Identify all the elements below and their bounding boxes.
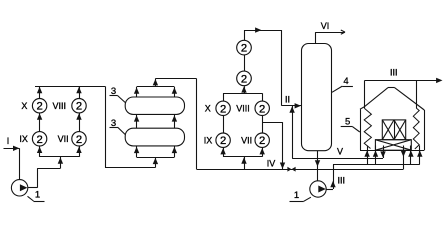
svg-text:II: II <box>285 95 290 105</box>
svg-text:X: X <box>205 104 211 114</box>
svg-text:1: 1 <box>294 190 299 201</box>
svg-text:III: III <box>338 175 346 185</box>
svg-text:2: 2 <box>76 101 82 113</box>
svg-text:2: 2 <box>241 43 247 55</box>
svg-text:2: 2 <box>241 73 247 85</box>
svg-text:V: V <box>337 147 343 157</box>
svg-text:X: X <box>21 101 27 111</box>
svg-text:VII: VII <box>241 135 252 145</box>
svg-text:VII: VII <box>58 134 69 144</box>
svg-text:IV: IV <box>267 159 276 169</box>
svg-text:5: 5 <box>345 116 350 127</box>
svg-text:III: III <box>390 68 398 78</box>
svg-text:2: 2 <box>36 134 42 146</box>
svg-text:4: 4 <box>343 76 348 87</box>
svg-text:2: 2 <box>259 103 265 115</box>
svg-text:IX: IX <box>19 134 28 144</box>
svg-text:IX: IX <box>204 135 213 145</box>
svg-text:2: 2 <box>76 134 82 146</box>
svg-text:2: 2 <box>220 103 226 115</box>
svg-text:VIII: VIII <box>53 101 67 111</box>
svg-text:VI: VI <box>321 21 330 31</box>
svg-text:2: 2 <box>259 135 265 147</box>
svg-text:2: 2 <box>220 135 226 147</box>
svg-text:2: 2 <box>36 101 42 113</box>
svg-text:I: I <box>7 136 10 146</box>
svg-text:1: 1 <box>35 189 40 200</box>
svg-text:VIII: VIII <box>236 104 250 114</box>
